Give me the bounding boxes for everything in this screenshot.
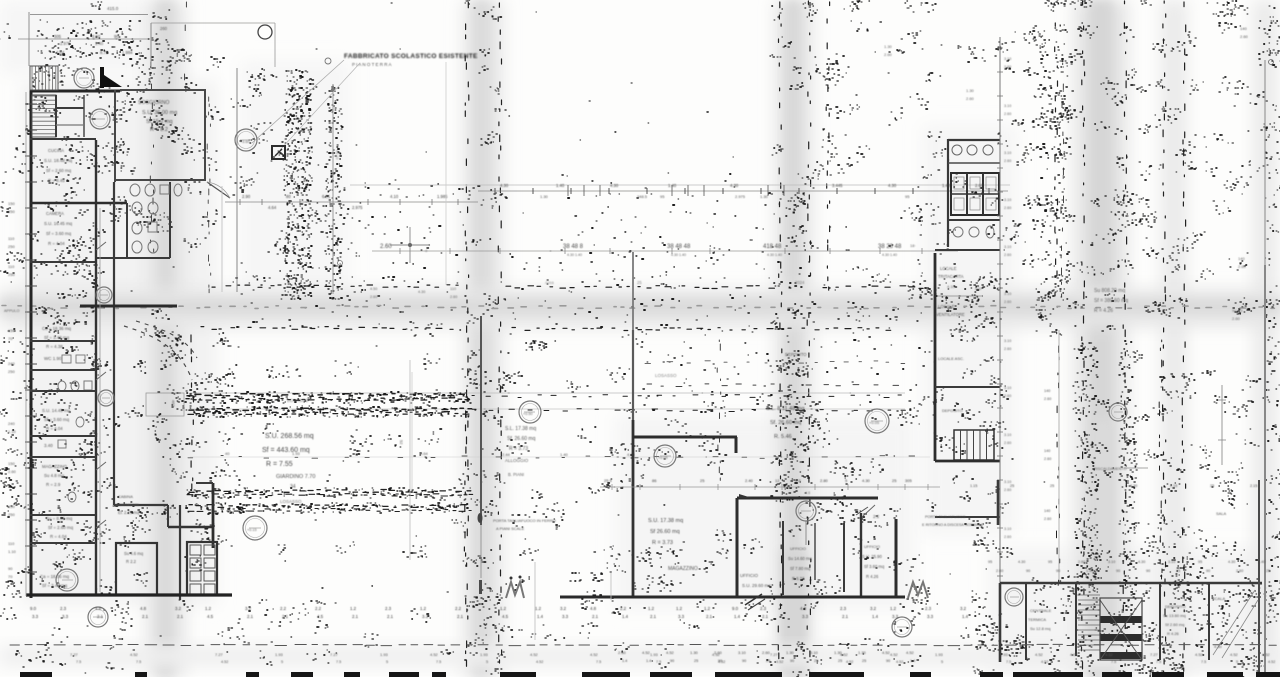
svg-text:3.3: 3.3 (422, 614, 429, 619)
svg-text:5: 5 (386, 660, 388, 664)
svg-text:4.30 1.40: 4.30 1.40 (767, 253, 782, 257)
strip room text 6 (46, 516, 74, 539)
svg-text:95: 95 (905, 194, 910, 199)
crease line x1265 (1264, 60, 1266, 677)
office upper wall y437 (633, 437, 737, 453)
svg-text:7.27: 7.27 (1150, 652, 1159, 657)
svg-text:CAMERA: CAMERA (46, 211, 64, 216)
svg-text:Sf = 443.60 mq: Sf = 443.60 mq (262, 447, 310, 454)
svg-text:1.985: 1.985 (437, 194, 448, 199)
bottom dim text clusters y610 (30, 606, 969, 619)
svg-text:7.5: 7.5 (436, 660, 441, 664)
dim line y251 (372, 244, 958, 285)
svg-text:43.10: 43.10 (335, 150, 339, 160)
svg-text:1.93: 1.93 (292, 451, 301, 456)
svg-text:25: 25 (838, 659, 842, 663)
svg-text:260: 260 (160, 26, 168, 31)
svg-text:1.93: 1.93 (935, 652, 944, 657)
svg-text:25: 25 (1210, 484, 1214, 488)
tag circle south (88, 607, 108, 627)
svg-text:4.52: 4.52 (890, 652, 899, 657)
strip room text 4 (44, 443, 53, 448)
svg-text:Sf = 380.60 mq: Sf = 380.60 mq (1094, 298, 1128, 304)
top right corner marks (1207, 1, 1274, 65)
wing partition wall x115 (114, 90, 116, 182)
door swing office (863, 505, 875, 516)
svg-text:2.1: 2.1 (706, 614, 713, 619)
svg-text:2.1: 2.1 (592, 614, 599, 619)
svg-text:S.U. 18.48 mq: S.U. 18.48 mq (44, 158, 73, 163)
svg-text:3.10: 3.10 (1004, 57, 1011, 61)
svg-text:1.4: 1.4 (962, 614, 969, 619)
svg-text:DEPOSITO: DEPOSITO (1165, 604, 1186, 609)
dim line top right y23 (151, 23, 275, 67)
svg-text:Su 14.60 mq: Su 14.60 mq (788, 556, 812, 561)
strip room fixtures (58, 355, 85, 502)
svg-text:2.1: 2.1 (142, 614, 149, 619)
svg-text:250: 250 (8, 272, 15, 277)
svg-text:3.2: 3.2 (960, 606, 967, 611)
svg-text:4.0: 4.0 (795, 478, 801, 483)
svg-text:7.5: 7.5 (136, 660, 141, 664)
svg-text:2.15: 2.15 (1250, 484, 1257, 488)
strip room text 3 (42, 408, 71, 431)
tag circle corridor (96, 287, 112, 303)
svg-text:3.10: 3.10 (1004, 151, 1011, 155)
svg-text:90: 90 (1146, 569, 1150, 573)
svg-text:90: 90 (670, 659, 674, 663)
column room divider y163 (948, 145, 1000, 163)
corridor south jog (114, 505, 214, 527)
svg-text:1.4: 1.4 (872, 614, 879, 619)
dim line y487 (600, 478, 940, 495)
column divider y220 (948, 220, 1000, 238)
svg-text:1.2: 1.2 (890, 606, 897, 611)
svg-text:1.30: 1.30 (834, 650, 843, 655)
svg-text:90: 90 (1056, 569, 1060, 573)
svg-text:25: 25 (892, 478, 897, 483)
svg-text:2.60: 2.60 (1240, 34, 1249, 39)
svg-text:4.30: 4.30 (1018, 560, 1025, 564)
svg-text:LOCALE ASC.: LOCALE ASC. (938, 356, 964, 361)
office texts (740, 573, 771, 588)
svg-text:LOSASSO: LOSASSO (287, 398, 309, 403)
svg-text:1.40: 1.40 (560, 452, 569, 457)
thin line x1059 (1044, 330, 1059, 580)
svg-text:4.52: 4.52 (1105, 652, 1114, 657)
svg-text:305: 305 (905, 478, 912, 483)
svg-text:R = 4.38: R = 4.38 (46, 344, 63, 349)
br wall x1026 (1025, 584, 1027, 660)
corridor fixtures (132, 202, 158, 253)
svg-text:2.60: 2.60 (714, 650, 723, 655)
svg-text:2.60: 2.60 (884, 52, 893, 57)
dim line y202 (225, 194, 478, 210)
left building outer west wall (30, 90, 33, 598)
faint bottom band (0, 646, 1280, 666)
locale texts (938, 266, 964, 289)
window ticks west wall (25, 92, 37, 596)
svg-text:3.10: 3.10 (1108, 560, 1115, 564)
svg-text:3.10: 3.10 (1004, 104, 1011, 108)
wing south wall y180 (114, 179, 206, 181)
bottom dim pairs y655 (70, 652, 1275, 664)
soggiorno text (138, 100, 177, 133)
svg-text:95: 95 (1048, 560, 1052, 564)
svg-text:2.60: 2.60 (1004, 159, 1011, 163)
dim texts top row2 (56, 50, 133, 55)
svg-text:70: 70 (8, 336, 13, 341)
svg-text:5: 5 (941, 660, 943, 664)
offices south wall y597 (560, 596, 905, 599)
svg-text:2.60: 2.60 (996, 569, 1003, 573)
annex wall x180 (179, 505, 181, 600)
svg-text:3.10: 3.10 (1004, 292, 1011, 296)
svg-text:90: 90 (1116, 569, 1120, 573)
svg-text:4.10: 4.10 (390, 194, 399, 199)
br wall x1076 (1075, 584, 1077, 656)
office partition x815 (814, 523, 816, 580)
svg-text:R = 3.73: R = 3.73 (509, 446, 528, 452)
svg-text:415.0: 415.0 (107, 6, 119, 11)
svg-text:52: 52 (399, 440, 404, 445)
fold band vertical B4 (1074, 0, 1128, 677)
svg-text:4.30: 4.30 (862, 478, 871, 483)
svg-text:FABBRICATO SCOLASTICO ESISTENT: FABBRICATO SCOLASTICO ESISTENTE (344, 53, 478, 60)
svg-text:Su 4.8 mq: Su 4.8 mq (44, 473, 65, 478)
svg-text:4.52: 4.52 (1268, 660, 1275, 664)
dash row y385 (647, 384, 899, 387)
svg-text:Sf 2.60 mq: Sf 2.60 mq (1165, 622, 1184, 627)
svg-text:R = 4.04: R = 4.04 (50, 534, 67, 539)
porta tagliafuoco text (493, 518, 556, 531)
svg-text:2.60: 2.60 (1078, 560, 1085, 564)
svg-text:1.30: 1.30 (966, 88, 975, 93)
svg-text:CUCINA: CUCINA (48, 148, 64, 153)
tag circle quota (235, 129, 257, 151)
svg-text:4.5: 4.5 (317, 614, 324, 619)
svg-text:Sf 3.60 mq: Sf 3.60 mq (864, 564, 885, 569)
svg-text:2.60: 2.60 (1004, 441, 1011, 445)
svg-text:R = 2.9: R = 2.9 (46, 482, 61, 487)
svg-text:3.10: 3.10 (1004, 198, 1011, 202)
svg-text:25: 25 (766, 659, 770, 663)
svg-text:Su = 8.30 mq: Su = 8.30 mq (46, 516, 73, 521)
strip partition y515 (30, 514, 96, 516)
tag circle office1 (654, 445, 676, 467)
svg-text:1.15: 1.15 (970, 484, 977, 488)
svg-text:140: 140 (1240, 26, 1247, 31)
svg-text:4.52: 4.52 (1041, 660, 1048, 664)
strip partition y370 (30, 369, 96, 371)
losasso smudge mid (655, 373, 677, 378)
bathroom fixtures row y385 (58, 381, 92, 391)
svg-text:2.60: 2.60 (1238, 264, 1247, 269)
svg-text:SALA: SALA (1216, 511, 1227, 516)
corridor east wall x170 (96, 182, 170, 258)
title leaders (252, 60, 360, 150)
svg-text:2.90: 2.90 (242, 194, 251, 199)
br north wall y583 (1000, 582, 1262, 585)
annex room 1 (116, 543, 157, 595)
svg-text:1.93: 1.93 (480, 652, 489, 657)
svg-text:4.30: 4.30 (730, 183, 739, 188)
svg-text:7.5: 7.5 (1111, 660, 1116, 664)
svg-text:2.60: 2.60 (1044, 457, 1051, 461)
column stall grid (951, 173, 999, 215)
svg-text:4.30 1.40: 4.30 1.40 (671, 253, 686, 257)
svg-text:140: 140 (1044, 449, 1050, 453)
svg-text:VENTILATORE: VENTILATORE (936, 312, 965, 317)
svg-text:4.30: 4.30 (1228, 560, 1235, 564)
annex room 2 with shelving (187, 542, 217, 595)
svg-text:2.2: 2.2 (873, 514, 880, 519)
br texts (1028, 608, 1052, 631)
svg-text:4.30 1.40: 4.30 1.40 (567, 253, 582, 257)
svg-text:4.52: 4.52 (130, 652, 139, 657)
svg-text:A PIANI SCALE: A PIANI SCALE (496, 526, 525, 531)
strip room text 5 (42, 464, 68, 487)
svg-text:R = 8.2: R = 8.2 (150, 127, 168, 133)
svg-text:90: 90 (718, 659, 722, 663)
svg-text:4.52: 4.52 (666, 650, 675, 655)
extra top-left marks (37, 20, 141, 59)
svg-text:1.10: 1.10 (8, 549, 17, 554)
yard area text 2 (276, 474, 315, 490)
title text (344, 53, 478, 67)
svg-text:2.3: 2.3 (760, 606, 767, 611)
upper wing south thick wall y306 (80, 305, 177, 308)
svg-text:9.0: 9.0 (732, 606, 739, 611)
strip partition y457 (30, 456, 96, 458)
svg-text:7.27: 7.27 (330, 652, 339, 657)
svg-text:80: 80 (286, 194, 291, 199)
svg-text:25: 25 (1050, 484, 1054, 488)
svg-text:SOGGIORNO: SOGGIORNO (138, 100, 170, 106)
svg-text:3.40: 3.40 (44, 443, 53, 448)
svg-text:2.60: 2.60 (1232, 316, 1241, 321)
svg-text:4.30: 4.30 (418, 290, 425, 294)
svg-text:4.52: 4.52 (221, 660, 228, 664)
office east wall x896 (895, 519, 898, 598)
svg-text:DEPOSITO: DEPOSITO (942, 408, 963, 413)
column divider y517 (935, 516, 1000, 518)
svg-text:2.1: 2.1 (842, 614, 849, 619)
svg-text:GIARDINO 7.70: GIARDINO 7.70 (276, 474, 315, 480)
svg-text:2024: 2024 (795, 280, 805, 285)
bottom dashed dim line y645 (10, 644, 1276, 645)
svg-text:2.60: 2.60 (1004, 535, 1011, 539)
tag circle stairs (74, 68, 94, 88)
svg-text:9.0: 9.0 (30, 606, 37, 611)
dim texts y455 (225, 451, 636, 457)
strip partition y543 (30, 542, 96, 544)
svg-text:B. PIANI: B. PIANI (508, 472, 524, 477)
left building south wall (26, 593, 232, 596)
svg-text:CONTATORI: CONTATORI (116, 502, 139, 507)
svg-text:S.U. 16.45 mq: S.U. 16.45 mq (44, 221, 73, 226)
svg-text:4.8: 4.8 (140, 606, 147, 611)
svg-text:1.40: 1.40 (1086, 569, 1093, 573)
svg-text:4.8: 4.8 (590, 606, 597, 611)
svg-text:+0.15: +0.15 (247, 528, 257, 532)
zigzag break right (908, 582, 928, 598)
column top wall y140 (948, 139, 1000, 141)
svg-text:2.60: 2.60 (1044, 397, 1051, 401)
svg-text:150: 150 (8, 328, 15, 333)
svg-text:18·: 18· (910, 243, 916, 248)
svg-text:1.2: 1.2 (205, 606, 212, 611)
svg-text:1.4: 1.4 (622, 614, 629, 619)
svg-text:38 48 48: 38 48 48 (667, 244, 691, 250)
bottom room text (40, 574, 69, 588)
svg-text:4.52: 4.52 (430, 652, 439, 657)
annex east wall x213 (196, 483, 213, 548)
svg-text:2.2: 2.2 (280, 606, 287, 611)
svg-text:1.30: 1.30 (540, 194, 549, 199)
svg-text:12: 12 (775, 478, 780, 483)
svg-text:1.93: 1.93 (275, 652, 284, 657)
svg-text:2.975: 2.975 (735, 194, 746, 199)
svg-text:2.60: 2.60 (8, 469, 17, 474)
svg-text:S.L. 8.11.48 mq: S.L. 8.11.48 mq (766, 406, 804, 412)
svg-text:2.3: 2.3 (925, 606, 932, 611)
svg-text:4.30 1.40: 4.30 1.40 (882, 253, 897, 257)
svg-text:2.1: 2.1 (457, 614, 464, 619)
svg-text:Sf = 3.40 mq: Sf = 3.40 mq (42, 583, 68, 588)
svg-text:7.5: 7.5 (1156, 660, 1161, 664)
br dim text row (988, 560, 1270, 573)
tag circle right (1109, 403, 1127, 421)
svg-text:1.10: 1.10 (8, 429, 17, 434)
svg-text:150: 150 (8, 504, 15, 509)
svg-text:7.27: 7.27 (770, 652, 779, 657)
svg-text:3.10: 3.10 (1004, 386, 1011, 390)
svg-text:3.3: 3.3 (678, 614, 685, 619)
svg-text:MAGAZZINO: MAGAZZINO (668, 566, 698, 572)
svg-text:7.27: 7.27 (70, 652, 79, 657)
annex room 1 text (124, 551, 144, 564)
svg-text:4.52: 4.52 (1070, 652, 1079, 657)
faint line x446 (445, 62, 447, 285)
svg-text:4.8: 4.8 (800, 606, 807, 611)
br west wall x1000 (999, 583, 1002, 662)
svg-text:2.2: 2.2 (620, 606, 627, 611)
svg-text:UFFICIO: UFFICIO (740, 573, 758, 578)
svg-text:4.50: 4.50 (370, 287, 377, 291)
svg-text:2.60: 2.60 (618, 650, 627, 655)
svg-text:2.60: 2.60 (1004, 65, 1011, 69)
svg-text:1.4: 1.4 (622, 659, 627, 663)
tag circle strip (98, 390, 114, 406)
svg-text:5: 5 (1236, 660, 1238, 664)
svg-text:R = 4.04: R = 4.04 (48, 241, 65, 246)
fold band vertical B3 (775, 0, 813, 677)
svg-text:Cu = 18.36 mq: Cu = 18.36 mq (42, 326, 71, 331)
svg-text:38 48 8: 38 48 8 (563, 244, 584, 250)
svg-text:MAGAZZINO: MAGAZZINO (42, 464, 68, 469)
svg-text:4.52: 4.52 (882, 650, 891, 655)
dense bottom text row mid (618, 650, 915, 663)
office partition x844 (843, 523, 845, 592)
svg-text:5: 5 (1076, 660, 1078, 664)
svg-text:2.40: 2.40 (745, 478, 754, 483)
column stair lower (954, 430, 994, 460)
strip room text 2 (44, 356, 62, 361)
wall stub x996 upper (997, 480, 1000, 525)
svg-text:PORTA TAGLIAFUOCO IN FERRO: PORTA TAGLIAFUOCO IN FERRO (493, 518, 556, 523)
svg-text:1.30: 1.30 (760, 194, 769, 199)
svg-text:600: 600 (975, 287, 981, 291)
svg-text:Su 12.8 mq: Su 12.8 mq (1030, 626, 1050, 631)
svg-text:1.2: 1.2 (350, 606, 357, 611)
svg-text:1.4: 1.4 (646, 659, 651, 663)
svg-text:4.52: 4.52 (846, 660, 853, 664)
svg-text:d: d (425, 248, 427, 253)
svg-text:4.30: 4.30 (610, 183, 619, 188)
svg-text:305: 305 (54, 34, 62, 39)
svg-text:140: 140 (1238, 256, 1245, 261)
riscaldamento text (1094, 467, 1148, 471)
svg-text:2.1: 2.1 (97, 614, 104, 619)
svg-text:4.52: 4.52 (536, 660, 543, 664)
svg-text:1.93: 1.93 (380, 652, 389, 657)
svg-text:S.U. 36.00 mq: S.U. 36.00 mq (142, 110, 177, 116)
offices west wall x737 (736, 498, 739, 598)
svg-text:25: 25 (700, 478, 705, 483)
svg-text:4.30: 4.30 (888, 183, 897, 188)
svg-text:150: 150 (8, 461, 15, 466)
svg-text:PORTA TAGLIAFUOCO: PORTA TAGLIAFUOCO (925, 515, 965, 519)
svg-text:240: 240 (8, 361, 15, 366)
svg-text:2.44: 2.44 (502, 452, 511, 457)
svg-text:3.10: 3.10 (1004, 245, 1011, 249)
strip partition y436 (30, 435, 96, 437)
survey line x237 (236, 68, 238, 292)
svg-text:2.60: 2.60 (370, 295, 377, 299)
svg-text:1.2: 1.2 (704, 606, 711, 611)
svg-text:2.1: 2.1 (247, 614, 254, 619)
faint line y185 (350, 184, 1010, 186)
svg-text:110: 110 (8, 541, 15, 546)
svg-text:3.2: 3.2 (560, 606, 567, 611)
svg-text:R 6.33: R 6.33 (792, 576, 805, 581)
svg-text:CABINA: CABINA (118, 494, 133, 499)
column south wall y461 (935, 460, 1000, 463)
svg-text:1.2: 1.2 (648, 606, 655, 611)
svg-text:1.93: 1.93 (1000, 652, 1009, 657)
svg-text:250: 250 (8, 512, 15, 517)
svg-text:7.27: 7.27 (215, 652, 224, 657)
crosshair bench mark (390, 227, 430, 263)
svg-text:2.60: 2.60 (1004, 206, 1011, 210)
svg-text:DEPOSITO: DEPOSITO (785, 352, 807, 357)
svg-text:3.2: 3.2 (870, 606, 877, 611)
office partition x861 (860, 513, 862, 598)
dims above column (884, 44, 975, 101)
svg-text:2.60: 2.60 (1004, 112, 1011, 116)
svg-text:1.30: 1.30 (786, 650, 795, 655)
middle texts right of B2 (505, 426, 536, 477)
strip partition y341 (30, 340, 96, 342)
svg-text:LOSASSO: LOSASSO (655, 373, 677, 378)
yard corner dashed arcs (124, 321, 197, 380)
svg-text:Sf 7.80 mq: Sf 7.80 mq (790, 566, 811, 571)
svg-text:CENTRALE: CENTRALE (1030, 608, 1052, 613)
dim line top y15 (29, 6, 168, 66)
svg-text:4.30: 4.30 (1138, 560, 1145, 564)
svg-text:Su 10: Su 10 (1232, 308, 1243, 313)
